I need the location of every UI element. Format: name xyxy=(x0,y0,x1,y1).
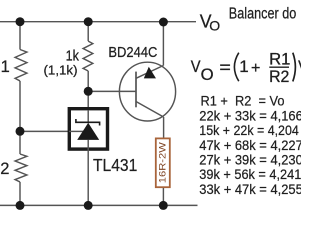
svg-text:O: O xyxy=(209,18,220,34)
svg-text:22k + 33k = 4,166: 22k + 33k = 4,166 xyxy=(199,108,301,123)
svg-text:Balancer do: Balancer do xyxy=(229,6,296,23)
svg-text:33k + 47k = 4,255: 33k + 47k = 4,255 xyxy=(199,182,301,197)
svg-text:39k + 56k = 4,241: 39k + 56k = 4,241 xyxy=(199,167,301,182)
svg-text:V: V xyxy=(191,58,201,76)
svg-text:=: = xyxy=(219,58,231,77)
svg-text:R2: R2 xyxy=(269,68,289,86)
svg-text:+: + xyxy=(251,60,260,77)
svg-text:R1: R1 xyxy=(0,58,10,76)
svg-text:47k + 68k = 4,227: 47k + 68k = 4,227 xyxy=(199,138,301,153)
svg-text:27k + 39k = 4,230: 27k + 39k = 4,230 xyxy=(199,152,301,167)
svg-text:R2: R2 xyxy=(0,160,9,178)
svg-text:(1,1k): (1,1k) xyxy=(44,63,78,78)
svg-text:TL431: TL431 xyxy=(93,155,137,175)
svg-text:1: 1 xyxy=(239,57,248,76)
svg-text:V: V xyxy=(298,58,301,76)
svg-text:15k + 22k = 4,204: 15k + 22k = 4,204 xyxy=(199,123,299,138)
svg-text:R1: R1 xyxy=(269,51,290,69)
svg-text:R1 + R2 = Vo: R1 + R2 = Vo xyxy=(201,94,285,109)
svg-text:BD244C: BD244C xyxy=(108,44,157,61)
svg-text:16R-2W: 16R-2W xyxy=(158,142,169,183)
svg-text:O: O xyxy=(201,65,214,84)
